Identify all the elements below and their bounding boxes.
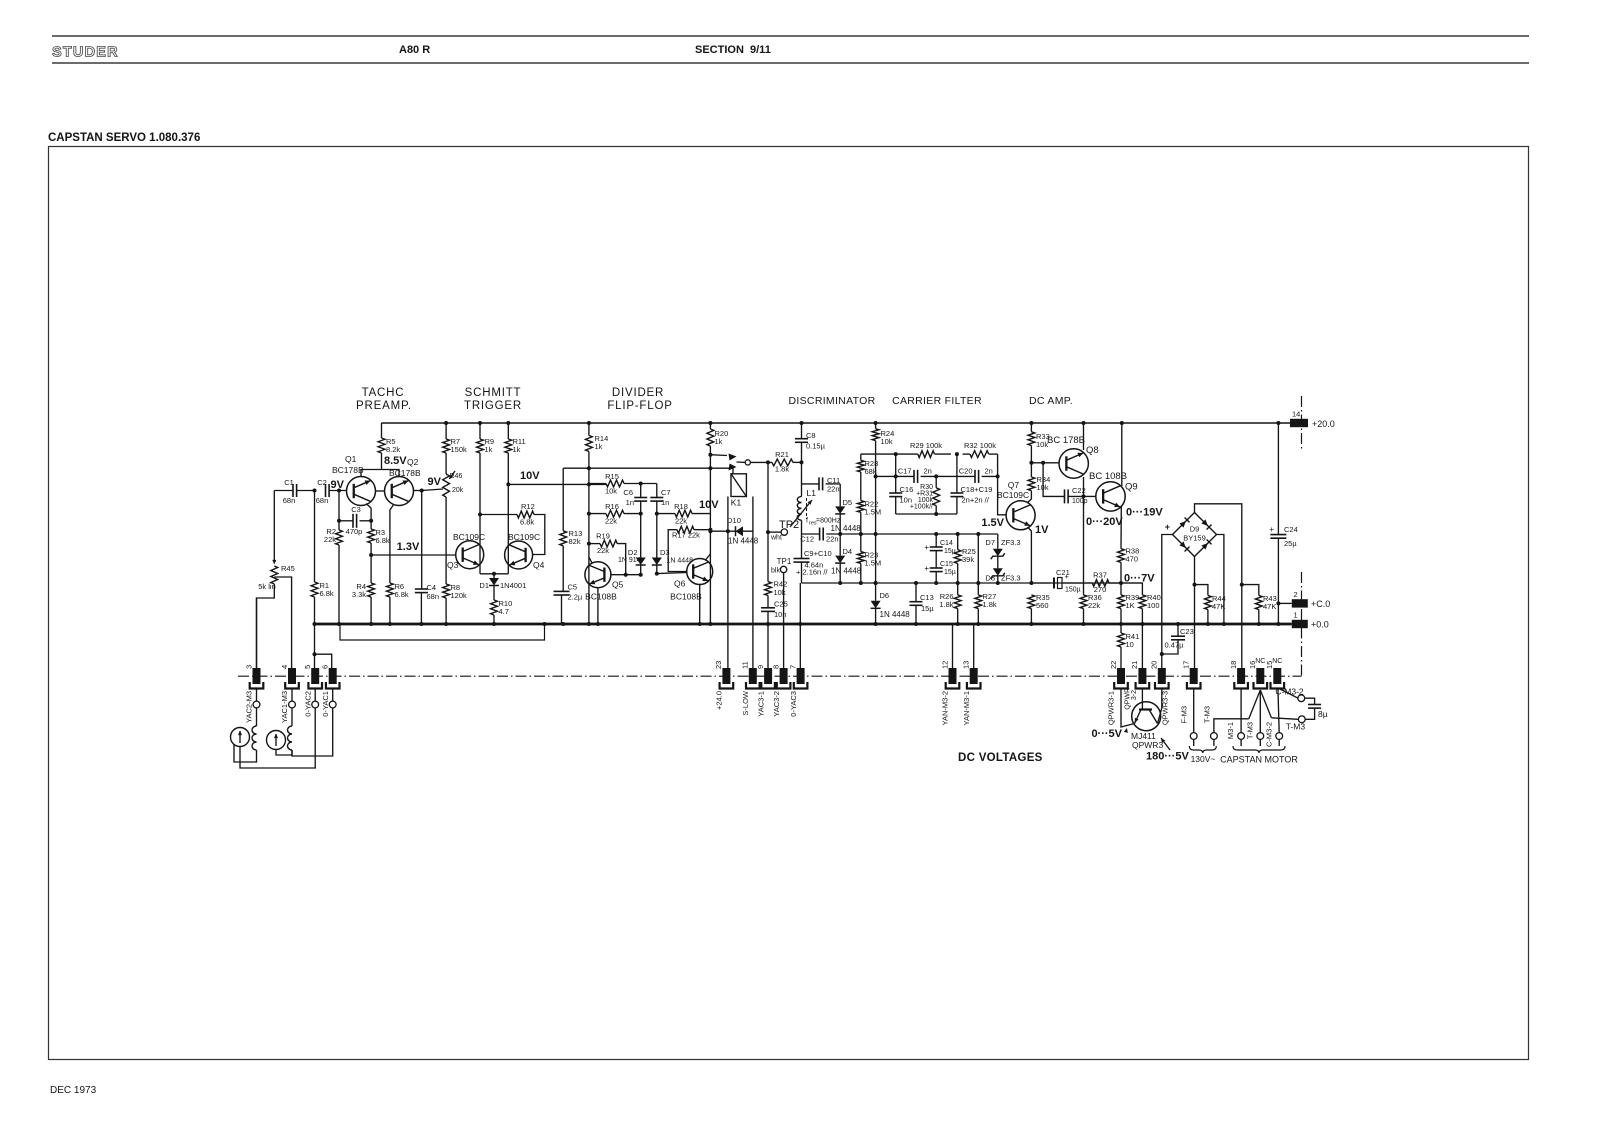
svg-text:1N 4448: 1N 4448 [831,524,862,533]
wire bridge bottom to connector 17 [1194,557,1196,669]
connector 17 F-M3 [1190,668,1198,684]
wire Q5 emitter to ground [597,588,599,624]
resistor R42 [765,582,772,596]
svg-text:100: 100 [1147,601,1160,610]
connector 15 NC [1273,668,1281,684]
connector 18 M3-1 [1237,668,1245,684]
svg-text:2n: 2n [924,467,932,476]
svg-text:68n: 68n [316,496,329,505]
svg-text:DC AMP.: DC AMP. [1029,395,1073,407]
svg-text:560: 560 [1036,601,1049,610]
resistor R38 [1118,549,1125,563]
potentiometer R45 [271,566,278,584]
brace 130V [1189,746,1216,753]
svg-text:22k: 22k [675,517,687,526]
svg-text:C-M3-2: C-M3-2 [1265,722,1274,747]
svg-text:ZF3.3: ZF3.3 [1001,574,1021,583]
svg-text:8µ: 8µ [1318,709,1328,719]
svg-text:QPWR3-1: QPWR3-1 [1107,691,1116,725]
resistor R35 [1028,595,1035,609]
resistor R43 [1242,585,1259,596]
svg-text:1V: 1V [1035,524,1049,536]
resistor R39 [1120,583,1122,595]
resistor R32 [970,451,989,458]
svg-text:S-LOW: S-LOW [741,690,750,716]
svg-text:20: 20 [1150,661,1159,669]
capacitor C7 [656,484,658,498]
svg-text:1.5M: 1.5M [865,508,882,517]
resistor R4 [368,583,375,597]
resistor R10 [491,600,498,615]
dash-dot chassis line vertical right [1301,572,1303,676]
svg-text:A80 R: A80 R [399,44,430,56]
svg-text:C12: C12 [800,535,814,544]
svg-text:6: 6 [321,665,330,669]
svg-text:R46: R46 [450,473,463,480]
svg-text:SCHMITT: SCHMITT [465,387,522,399]
svg-text:D2: D2 [628,548,638,557]
svg-text:82k: 82k [569,537,581,546]
connector 2 +C.0 [1278,602,1291,604]
test point TP2 [781,529,787,535]
wire carrier filter top bus [861,453,918,455]
terminal T-M3 (capstan) [1298,716,1305,723]
svg-text:R29 100k: R29 100k [910,441,942,450]
svg-text:6.8k: 6.8k [395,590,409,599]
capacitor C1 [292,484,294,497]
svg-text:2n+2n //: 2n+2n // [962,496,990,505]
svg-text:C3: C3 [351,505,361,514]
terminal T-M3 (130V) [1211,733,1218,740]
resistor R5 [381,423,383,438]
svg-text:1N 914: 1N 914 [618,557,641,564]
resistor R17 [677,526,694,533]
connector 4 YAC1-M3 [288,668,296,684]
svg-text:C1: C1 [284,478,294,487]
wire T-M3 terminal to connector 16 [1271,718,1298,720]
capacitor C2 [325,484,327,497]
svg-text:4.7: 4.7 [499,607,509,616]
svg-text:DIVIDER: DIVIDER [612,387,664,399]
svg-text:DISCRIMINATOR: DISCRIMINATOR [789,395,876,407]
wire Q6 collector [706,554,711,560]
svg-text:1.5M: 1.5M [865,559,882,568]
svg-text:C4: C4 [427,583,437,592]
svg-text:R16: R16 [605,502,619,511]
svg-text:QPWR3: QPWR3 [1132,740,1163,750]
wire Q1 collector [366,504,371,509]
svg-text:TP2: TP2 [779,519,799,531]
wire YAC3-1 riser [767,462,769,581]
svg-text:Q7: Q7 [1008,480,1020,490]
svg-text:0-YAC2: 0-YAC2 [303,691,312,717]
svg-text:6.8k: 6.8k [320,589,334,598]
svg-text:25µ: 25µ [1284,539,1297,548]
svg-text:M3-1: M3-1 [1226,722,1235,739]
resistor R29 [918,451,935,458]
svg-text:150µ: 150µ [1065,587,1081,594]
wire discriminator bottom bus [802,582,1143,584]
svg-text:22k: 22k [1088,601,1100,610]
wire Q1-Q2 base link [376,490,385,492]
capacitor C18+C19 [956,454,958,493]
svg-text:8.5V: 8.5V [384,455,407,467]
svg-text:DC VOLTAGES: DC VOLTAGES [958,752,1043,764]
connector 3 YAC2-M3 [256,598,258,668]
svg-text:47K: 47K [1212,602,1225,611]
terminal YAC1-M3 [289,701,296,708]
resistor R37 [1092,580,1109,587]
svg-text:BC109C: BC109C [997,490,1029,500]
resistor R14 [588,423,590,435]
svg-text:11: 11 [741,661,750,669]
svg-text:NC: NC [1272,658,1282,665]
resistor R24 [875,423,877,429]
wire Q9 collector to rail [1121,423,1123,486]
svg-text:L1: L1 [807,488,817,498]
wire Q1 base line [274,490,293,492]
resistor R41 [1120,624,1122,633]
svg-text:8.2k: 8.2k [386,445,400,454]
connector 20 QPWR3-3 [1158,668,1166,684]
wire R45 to connector 4 [274,577,291,668]
svg-text:1N 4448: 1N 4448 [728,537,759,546]
svg-text:9V: 9V [428,476,442,488]
svg-text:14: 14 [1292,410,1300,419]
svg-text:0-YAC3: 0-YAC3 [789,691,798,717]
wire +24V riser [722,668,730,684]
svg-text:Q8: Q8 [1086,445,1099,456]
tacho generator 1 [231,728,250,747]
svg-text:blk: blk [771,568,780,575]
svg-text:1.8k: 1.8k [983,600,997,609]
svg-text:3-2: 3-2 [1131,690,1138,700]
svg-text:BC109C: BC109C [453,532,485,542]
svg-text:CARRIER FILTER: CARRIER FILTER [892,395,982,407]
wire discriminator mid bus [801,520,803,534]
capacitor C8 [801,423,803,439]
svg-text:1.8k: 1.8k [775,465,789,474]
svg-text:1K: 1K [1126,601,1135,610]
svg-text:5k lin: 5k lin [258,582,276,591]
tacho generator 2 [267,731,286,750]
svg-text:CAPSTAN MOTOR: CAPSTAN MOTOR [1220,755,1298,765]
resistor R23 [860,534,862,552]
svg-text:K1: K1 [731,498,742,508]
capacitor C14 [935,534,937,547]
relay contact arrows [710,454,727,457]
svg-text:+20.0: +20.0 [1312,419,1335,429]
wire L1 top bus [801,462,803,496]
diode D6 1N4448 [871,601,881,609]
wire Q1 Q2 emitter fork [361,470,399,477]
svg-text:R32 100k: R32 100k [964,441,996,450]
transistor Q1 BC178B [347,477,376,506]
svg-text:R18: R18 [674,502,688,511]
wire Q7 collector [1027,491,1031,503]
wire C22 to Q9 base [1068,495,1096,497]
wire R12 to Q4 [533,515,545,555]
svg-text:T-M3: T-M3 [1286,722,1306,732]
wire connector 5 riser [315,624,332,668]
svg-text:D5: D5 [843,498,853,507]
resistor R15 [606,480,624,487]
wire +20V top rail [382,422,1291,424]
svg-text:D3: D3 [660,548,670,557]
svg-text:12: 12 [940,661,949,669]
connector 7 0-YAC3 [797,668,805,684]
svg-text:BC108B: BC108B [670,592,702,602]
svg-text:R21: R21 [775,450,789,459]
resistor R22 [860,472,862,501]
resistor R12 [517,511,534,518]
resistor R40 [1121,583,1142,595]
svg-text:YAC3-2: YAC3-2 [772,691,781,717]
resistor R25 [957,534,959,550]
connector 1 +0.0 [1292,620,1308,628]
motor terminal T-M3 [1257,733,1264,740]
svg-text:17: 17 [1182,661,1191,669]
svg-text:2n: 2n [985,467,993,476]
resistor R26 [957,583,959,595]
svg-text:10V: 10V [699,499,719,511]
svg-text:F-M3: F-M3 [1180,706,1189,724]
resistor R3 [368,529,375,543]
capacitor C23 [1177,624,1179,636]
svg-text:+ 2.16n //: + 2.16n // [796,568,828,577]
svg-text:YAC2-M3: YAC2-M3 [245,691,254,723]
svg-text:Q6: Q6 [674,579,686,589]
svg-text:+: + [1269,525,1274,534]
wire R45 wiper [273,491,275,562]
wire R45 to connector 3 [257,584,275,668]
connector 21 QPWR3-2 [1141,624,1143,668]
terminal 0-YAC1 [329,701,336,708]
border frame [49,147,1529,1060]
svg-text:+100k//: +100k// [910,504,933,511]
svg-text:68n: 68n [427,592,440,601]
svg-text:6.8k: 6.8k [520,518,534,527]
connector 12 YAN-M3-2 [952,624,954,668]
svg-text:C20: C20 [959,467,973,476]
svg-text:180···5V: 180···5V [1146,751,1189,763]
svg-text:C-M3-2: C-M3-2 [1275,687,1304,697]
svg-text:+: + [1065,572,1070,581]
svg-text:YAC1-M3: YAC1-M3 [280,691,289,723]
svg-text:D10: D10 [727,516,741,525]
svg-text:+24.0: +24.0 [715,691,724,710]
svg-text:wht: wht [770,535,782,542]
transistor Q4 BC109C [505,541,533,569]
wire ground rail [315,623,1292,626]
svg-text:Q1: Q1 [345,454,357,464]
wire bridge top to connector 18 [1195,504,1242,668]
wire Q2 emitter output [414,490,422,492]
wire T-M3 to connector 16 [1214,719,1249,733]
wire bridge left to connector 20 [1162,535,1173,669]
svg-text:9V: 9V [331,479,345,491]
svg-text:Q9: Q9 [1125,482,1138,493]
zener D8 ZF3.3 [993,568,1003,576]
wire Q8 base line [1031,462,1059,464]
wire ground detour loop [340,624,545,640]
resistor R11 [507,423,509,439]
capacitor C25 [761,607,775,609]
svg-text:YAN-M3-2: YAN-M3-2 [941,691,950,725]
svg-text:f: f [806,518,808,525]
connector 22 QPWR3-1 [1117,668,1125,684]
brace CAPSTAN MOTOR [1233,746,1285,753]
wire contact to R21 [750,461,772,463]
svg-text:20k: 20k [452,487,464,494]
zener D7 ZF3.3 [997,534,999,549]
resistor R16 [606,510,624,517]
resistor R28 [860,454,862,460]
svg-text:T-M3: T-M3 [1246,722,1255,739]
svg-text:0.47µ: 0.47µ [1165,641,1185,650]
svg-text:+0.0: +0.0 [1311,620,1329,630]
resistor R19 [600,540,617,547]
svg-text:47K: 47K [1263,602,1276,611]
motor terminal C-M3-2 [1276,733,1283,740]
svg-text:C6: C6 [623,488,633,497]
wire bridge right to ground [1217,535,1224,625]
capacitor C22 [1064,489,1066,503]
svg-text:1.8k: 1.8k [939,600,953,609]
test point TP1 [780,566,786,572]
svg-text:+: + [924,543,929,552]
resistor R7 [445,423,447,439]
svg-text:PREAMP.: PREAMP. [356,400,412,412]
wire Q9 emitter [1120,507,1122,549]
wire connector 16 fan [1249,690,1261,719]
svg-text:2.2µ: 2.2µ [568,593,583,602]
wire Q8 emitter collector rail [1083,423,1085,450]
svg-text:10k: 10k [774,588,786,597]
svg-text:SECTION 9/11: SECTION 9/11 [695,44,771,56]
connector 5 0-YAC2 [311,668,319,684]
inductor L1 [797,497,801,503]
svg-text:0···19V: 0···19V [1126,507,1163,519]
capacitor C13 [915,583,917,602]
terminal F-M3 [1193,688,1195,733]
wire 1.3V line to Q3 base [371,554,456,556]
svg-text:R19: R19 [596,532,610,541]
svg-text:0···5V: 0···5V [1091,728,1122,740]
svg-text:21: 21 [1130,661,1139,669]
svg-text:39k: 39k [962,555,974,564]
resistor R2 [338,491,340,531]
connector 14 +20.0 [1289,422,1291,424]
svg-text:470p: 470p [346,527,363,536]
svg-text:68n: 68n [283,496,296,505]
svg-text:100p: 100p [1072,498,1088,505]
svg-text:D1: D1 [479,581,489,590]
svg-text:3: 3 [244,665,253,669]
svg-text:270: 270 [1094,585,1107,594]
diode D4 1N4448 [839,534,841,556]
wire carrier filter lower bus [896,513,957,515]
svg-text:R15: R15 [605,472,619,481]
capacitor C24 [1277,423,1279,535]
svg-text:STUDER: STUDER [52,45,119,61]
connector 6 0-YAC1 [329,668,337,684]
svg-text:NC: NC [1255,658,1265,665]
tacho generator 2 return wire [276,750,292,756]
transistor Q7 BC109C [1006,501,1035,530]
wire filter output to Q7 base [998,454,1006,515]
wire 0-YAC3 riser [799,583,801,668]
svg-text:TRIGGER: TRIGGER [464,400,522,412]
svg-text:15µ: 15µ [944,569,956,576]
diode D5 1N4448 [839,484,841,507]
svg-text:R17 22k: R17 22k [672,531,700,540]
svg-text:R12: R12 [521,502,535,511]
connector 9 YAC3-1 [764,668,772,684]
resistor R6 [387,583,394,597]
svg-text:1N 4448: 1N 4448 [831,567,862,576]
resistor R8 [445,497,447,584]
transistor Q9 BC108B [1096,482,1125,511]
capacitor C4 [421,491,423,590]
svg-text:23: 23 [714,661,723,669]
svg-text:120k: 120k [451,591,468,600]
capacitor 8u [1305,698,1315,704]
resistor R34 [1028,477,1035,491]
svg-text:4: 4 [280,665,289,669]
svg-text:TACHC: TACHC [362,387,405,399]
svg-text:10k: 10k [881,437,893,446]
svg-text:3.3k: 3.3k [352,590,366,599]
transistor Q6 BC108B [687,559,713,585]
svg-text:130V~: 130V~ [1191,754,1216,764]
svg-text:C23: C23 [1180,627,1194,636]
transistor Q8 BC178B [1059,449,1088,478]
svg-text:BC178B: BC178B [332,465,364,475]
resistor R44 [1195,585,1208,596]
svg-text:1k: 1k [715,437,723,446]
resistor R13 [562,468,564,531]
svg-text:BC108B: BC108B [585,592,617,602]
transistor Q2 BC178B [385,477,414,506]
svg-text:C25: C25 [774,600,788,609]
wire connector 15 to C-M3-2 motor [1278,688,1279,733]
svg-text:BC109C: BC109C [508,532,540,542]
svg-text:D6: D6 [880,591,890,600]
svg-text:10: 10 [1126,640,1134,649]
capacitor C11 [818,477,820,490]
svg-text:10k: 10k [605,487,617,496]
svg-text:Q3: Q3 [447,560,459,570]
svg-text:CAPSTAN SERVO 1.080.376: CAPSTAN SERVO 1.080.376 [48,132,200,144]
svg-text:5: 5 [303,665,312,669]
svg-text:22: 22 [1109,661,1118,669]
svg-text:22k: 22k [324,535,336,544]
resistor R20 [709,423,711,429]
header rule bottom [52,62,1529,64]
svg-text:1: 1 [1294,611,1298,620]
svg-text:15µ: 15µ [944,548,956,555]
resistor R21 [772,459,793,466]
svg-text:Q2: Q2 [407,457,419,467]
svg-text:C8: C8 [806,431,816,440]
svg-text:R45: R45 [281,564,295,573]
svg-text:0-YAC1: 0-YAC1 [321,691,330,717]
wire connector 15 to C-M3-2 terminal [1278,688,1298,698]
connector 13 YAN-M3-1 [973,624,975,668]
wire Q6 emitter to ground [699,585,701,625]
potentiometer R46 [443,474,450,497]
